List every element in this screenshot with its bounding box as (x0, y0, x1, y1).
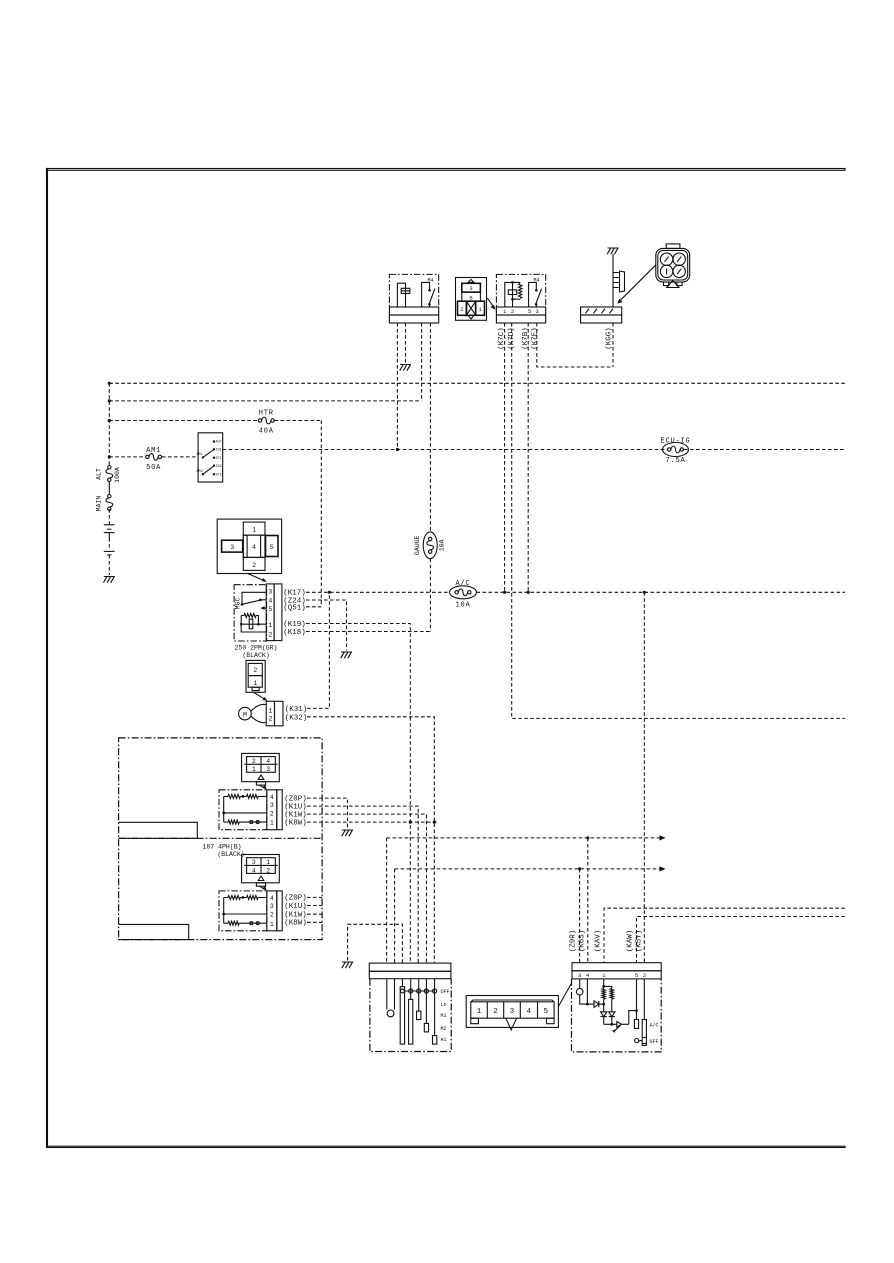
wire K1W relay2 stub (307, 913, 322, 915)
wire K1W right then down to blower switch (307, 814, 427, 963)
svg-text:(K8W): (K8W) (284, 920, 307, 928)
fuse ECU-IG 7.5A (663, 443, 689, 457)
svg-text:2: 2 (460, 306, 463, 313)
AM1 fuse line (109, 456, 198, 458)
svg-text:(BLACK): (BLACK) (242, 652, 269, 659)
page border frame bottom (47, 1146, 846, 1147)
svg-text:2: 2 (252, 758, 256, 765)
element E1 in M4 box (397, 283, 409, 307)
diode D3 (609, 1012, 615, 1025)
relay box M4 (magnetic clutch relay) (496, 274, 545, 307)
svg-text:(K1U): (K1U) (284, 903, 307, 911)
notch rectangle 2 (119, 924, 189, 939)
svg-text:ST2: ST2 (216, 473, 222, 477)
arrow motor connector to strip (254, 692, 268, 701)
wire pin-a left M4 box down to ECU-IG line (396, 323, 398, 450)
switch in right M4 box (529, 282, 542, 307)
svg-text:5: 5 (635, 972, 638, 979)
svg-text:2: 2 (266, 867, 270, 874)
svg-text:A/C: A/C (650, 1022, 659, 1028)
arrow to fan relay 1 strip (260, 785, 267, 790)
svg-text:100A: 100A (114, 467, 121, 483)
svg-text:(K31): (K31) (285, 706, 308, 714)
svg-text:(KAV): (KAV) (595, 930, 603, 953)
wire Z0P relay2 stub (307, 896, 322, 898)
svg-text:OFF: OFF (650, 1039, 659, 1045)
fan relay 1 box (219, 790, 267, 830)
svg-text:MGC: MGC (235, 598, 242, 610)
wire main vertical power feed (108, 383, 110, 465)
thermistor circle pin 3 (576, 979, 586, 1004)
MGC pin5 arrow (260, 606, 266, 610)
svg-text:3: 3 (266, 766, 270, 773)
ignition switch arms (203, 450, 213, 457)
svg-text:3: 3 (536, 308, 539, 315)
svg-text:(K6S): (K6S) (578, 930, 586, 953)
svg-text:ECU-IG: ECU-IG (660, 437, 690, 445)
svg-text:IG2: IG2 (216, 465, 222, 469)
svg-text:ST1: ST1 (216, 457, 222, 461)
notch rectangle 1 (119, 822, 198, 838)
svg-text:AM1: AM1 (196, 453, 202, 457)
svg-text:(BLACK): (BLACK) (217, 851, 244, 858)
ground (blower switch) (342, 962, 353, 968)
fuse AM1 50A (146, 455, 149, 458)
A/C control panel bar (572, 963, 661, 979)
blower switch connector bar (369, 963, 451, 979)
svg-text:Lo: Lo (441, 1002, 447, 1008)
wire K18 to gauge-fuse vertical (306, 631, 430, 633)
wire K6S down to A/C panel pin 4 (587, 838, 589, 963)
pin 4 wire (586, 979, 588, 1004)
MGC coil circuit (R + C) (240, 614, 266, 633)
condenser fan relay assembly box (119, 738, 323, 940)
fan relay 1 pin-view connector (242, 753, 280, 785)
switch ground link line (348, 924, 403, 963)
svg-text:10A: 10A (439, 539, 446, 551)
svg-text:(K19): (K19) (283, 621, 306, 629)
ground (Z24) (341, 652, 352, 658)
wire K1U relay2 stub (307, 905, 322, 907)
wire K8W row (307, 821, 437, 823)
ground (battery) (104, 577, 115, 583)
MGC switch contact (241, 592, 267, 605)
wire K7E from pin 3 down then right to KGG (537, 323, 613, 367)
svg-text:(K1W): (K1W) (284, 811, 307, 819)
junction dot K6S on line 1 (586, 836, 589, 839)
ignition switch connector block (217, 519, 281, 573)
svg-text:250 2PM(GR): 250 2PM(GR) (235, 645, 278, 652)
blower switch box (370, 979, 451, 1052)
fan relay 2 pin strip (267, 891, 282, 931)
wire from line1 down to blower switch (386, 838, 388, 963)
wire KAV line (604, 908, 845, 963)
wire pin-b left M4 box to ground (405, 323, 407, 363)
wire Z24 to ground (306, 600, 347, 651)
wire K7C from pin 1 down to A/C fuse line (504, 323, 506, 592)
bus line 2 (to heater relay) (109, 400, 421, 402)
blower motor M (239, 704, 267, 722)
A/C control panel box (572, 979, 662, 1052)
wire solid from ground to connector block (612, 254, 614, 307)
svg-text:(K18): (K18) (283, 629, 306, 637)
wire K17 / A-C fuse line (306, 591, 845, 593)
svg-text:M2: M2 (441, 1026, 447, 1032)
svg-text:4: 4 (266, 758, 270, 765)
arrow bus line 1 (387, 837, 660, 839)
wire K7D from pin 2 down then right (bus to x=845) (512, 323, 845, 718)
wire gauge fuse to K18 row (429, 559, 431, 632)
svg-text:ACC: ACC (216, 441, 222, 445)
svg-text:(KAW): (KAW) (626, 930, 634, 953)
fuse GAUGE 10A (423, 532, 437, 559)
fuse HTR 40A (258, 419, 261, 422)
svg-text:2: 2 (511, 308, 514, 315)
fuse MAIN (vertical) (108, 495, 111, 498)
svg-text:5: 5 (544, 1008, 549, 1016)
page border frame top (47, 169, 846, 171)
svg-text:(K1W): (K1W) (284, 912, 307, 920)
svg-text:4: 4 (270, 794, 274, 801)
battery (104, 525, 115, 555)
svg-text:3: 3 (268, 589, 272, 596)
relay coil in right M4 box (505, 281, 522, 307)
svg-text:AM2: AM2 (196, 470, 202, 474)
svg-text:1: 1 (268, 622, 272, 629)
svg-text:HTR: HTR (259, 410, 274, 418)
A/C switch contact pin 5 (634, 979, 638, 1029)
HTR fuse line (109, 420, 321, 422)
svg-text:Hi: Hi (441, 1037, 447, 1043)
relay box M4 (heater blower relay) (389, 274, 438, 307)
svg-text:1: 1 (253, 680, 257, 687)
svg-text:3: 3 (270, 903, 274, 910)
junction dots on K17 line (328, 591, 331, 594)
pointer line connector to A/C panel (558, 984, 571, 1007)
ground (Z0P) (342, 830, 353, 836)
svg-text:5: 5 (469, 294, 472, 301)
svg-text:IG1: IG1 (216, 449, 222, 453)
wire battery to ground (108, 538, 110, 548)
blower switch internals (387, 979, 437, 1044)
svg-text:AM1: AM1 (146, 447, 161, 455)
wire Q51 to HTR vertical (306, 606, 321, 608)
svg-text:5: 5 (270, 544, 274, 551)
svg-text:(Z9R): (Z9R) (569, 930, 577, 953)
svg-text:(K7C): (K7C) (498, 327, 506, 350)
diode D2 (601, 1012, 607, 1025)
svg-text:(K7E): (K7E) (532, 327, 540, 350)
blower switch connector (1-5) (466, 996, 558, 1030)
junction dots on power feed (108, 382, 111, 385)
svg-text:1: 1 (270, 921, 274, 928)
fan relay 2 pin-view connector (242, 855, 280, 887)
bus line 1 (top, full width) (109, 382, 845, 384)
pin 2 contact bar (642, 979, 646, 1046)
relay box MGC (234, 585, 267, 641)
switch S1 in M4 box (422, 282, 435, 307)
svg-text:2: 2 (270, 811, 274, 818)
fan relay 1 internals (222, 794, 266, 824)
fuse ALT 100A (vertical) (108, 466, 111, 469)
ground (left M4 box) (400, 365, 411, 371)
svg-text:1: 1 (266, 859, 270, 866)
svg-text:(K5Y): (K5Y) (635, 930, 643, 953)
wire K1U right then down to blower switch (307, 806, 418, 963)
svg-text:50A: 50A (146, 464, 161, 472)
svg-text:3: 3 (578, 972, 581, 979)
wire K5Y vertical (from A/C fuse line to panel pin 2) (643, 592, 645, 962)
svg-text:2: 2 (268, 715, 272, 722)
svg-text:4: 4 (252, 867, 256, 874)
MGC pin strip (266, 584, 282, 641)
ECU-IG line from ignition switch IG1 (223, 449, 845, 451)
svg-text:2: 2 (268, 631, 272, 638)
wire from line2 down to blower switch (394, 869, 396, 963)
svg-text:(Q51): (Q51) (283, 604, 306, 612)
svg-text:(Z0P): (Z0P) (284, 795, 307, 803)
variable resistor (604, 1009, 638, 1033)
wire K7B from pin 5 down to A/C fuse line (527, 323, 529, 592)
arrow bus line 2 (395, 868, 660, 870)
svg-text:4: 4 (252, 544, 256, 551)
wire K19 right then down to blower switch (306, 624, 410, 964)
wire between fuses (108, 481, 110, 495)
wire K8W relay2 stub (307, 921, 322, 923)
junction dot Z9R on line 2 (578, 867, 581, 870)
wire fuse to battery (108, 509, 110, 525)
svg-text:4: 4 (268, 598, 272, 605)
svg-text:(K7B): (K7B) (522, 327, 530, 350)
svg-text:7.5A: 7.5A (665, 457, 685, 465)
wire K32 right then down to blower switch (307, 717, 434, 963)
svg-text:1: 1 (270, 820, 274, 827)
diode D1 (587, 1001, 605, 1007)
svg-text:ALT: ALT (96, 468, 103, 480)
svg-text:M1: M1 (441, 1013, 447, 1019)
svg-text:(K32): (K32) (285, 714, 308, 722)
junction dots on K8W row (409, 821, 412, 824)
hatched connector block (KGG) (581, 307, 622, 323)
svg-text:40A: 40A (259, 428, 274, 436)
noise filter / capacitor element (613, 271, 625, 292)
wire KGG down then handled above (612, 323, 614, 367)
svg-text:4: 4 (270, 895, 274, 902)
blower motor strip (1/2) (266, 701, 283, 726)
wire K31 up to K17 line (307, 592, 329, 708)
arrow from round connector to hatched block (617, 265, 656, 304)
svg-text:MAIN: MAIN (96, 496, 103, 512)
svg-text:187 4PH(B): 187 4PH(B) (202, 844, 241, 851)
svg-text:3: 3 (252, 859, 256, 866)
svg-text:2: 2 (643, 972, 646, 979)
svg-text:(K1U): (K1U) (284, 803, 307, 811)
svg-text:2: 2 (252, 562, 256, 569)
arrow from socket to right M4 box (487, 298, 496, 310)
blower motor resistor connector (2/1) (246, 660, 265, 692)
svg-text:3: 3 (469, 285, 472, 292)
wire HTR fuse down to MGC Q51 (320, 421, 322, 607)
OFF contact circle (635, 1039, 643, 1043)
svg-text:(K8W): (K8W) (284, 819, 307, 827)
wire pin-c left M4 box down then left to bus line 2 (421, 323, 423, 401)
round 4-pin connector (compressor) (656, 244, 690, 288)
wire pin-d left M4 box down to GAUGE fuse (429, 323, 431, 532)
svg-text:3: 3 (510, 1008, 515, 1016)
wire KAW line (637, 917, 846, 963)
wire Z0P to ground (307, 798, 348, 828)
svg-text:2: 2 (253, 667, 257, 674)
svg-text:(KGG): (KGG) (606, 327, 614, 350)
fuse A/C 10A (450, 586, 477, 599)
svg-text:1: 1 (268, 707, 272, 714)
fan relay 1 pin strip (267, 790, 282, 830)
svg-text:3: 3 (270, 802, 274, 809)
svg-text:M: M (243, 711, 247, 718)
svg-text:GAUGE: GAUGE (414, 535, 421, 555)
svg-text:10A: 10A (455, 601, 470, 609)
svg-text:(K7D): (K7D) (508, 327, 516, 350)
ignition switch contacts (196, 440, 221, 477)
svg-text:5: 5 (528, 308, 531, 315)
svg-text:3: 3 (230, 544, 234, 551)
svg-text:(Z0P): (Z0P) (284, 895, 307, 903)
arrow connector block to MGC strip (248, 574, 267, 582)
fan relay 2 internals (222, 896, 266, 926)
pin 1 branch resistors (602, 979, 614, 1012)
svg-text:4: 4 (527, 1008, 532, 1016)
svg-text:OFF: OFF (441, 989, 450, 995)
ignition switch box (198, 433, 223, 482)
fan relay 2 box (219, 891, 267, 931)
svg-text:1: 1 (477, 1008, 482, 1016)
svg-text:2: 2 (493, 1008, 498, 1016)
page border frame left (47, 169, 48, 1148)
connector socket (2/X/1, 3, 5) (456, 278, 487, 321)
svg-text:1: 1 (252, 527, 256, 534)
svg-text:A/C: A/C (455, 580, 470, 588)
junction dot wire-a on ECU-IG line (396, 448, 399, 451)
svg-text:1: 1 (252, 766, 256, 773)
connector bar of right M4 box with pins 1 2 5 3 (496, 307, 545, 323)
svg-text:5: 5 (268, 606, 272, 613)
connector bar of left M4 box (389, 307, 438, 323)
ground (top right) (607, 248, 618, 254)
wire Z9R down to A/C panel pin 3 (579, 869, 581, 963)
svg-text:2: 2 (270, 912, 274, 919)
arrow to fan relay 2 strip (260, 886, 267, 891)
